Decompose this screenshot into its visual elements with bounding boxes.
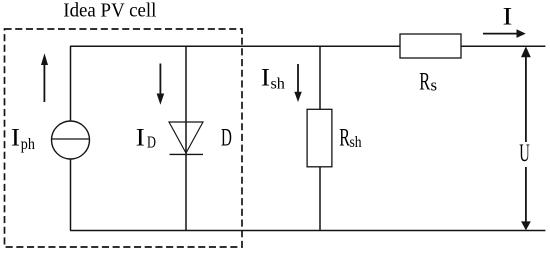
resistor R_s body [400, 34, 461, 58]
arrow: output current I (right) [483, 29, 526, 38]
svg-text:sh: sh [270, 76, 284, 93]
arrow: I_sh direction (down) [294, 64, 302, 102]
wire: current source branch vertical [70, 46, 72, 230]
svg-text:I: I [11, 122, 20, 151]
wire: shunt branch vertical (top) [319, 46, 321, 109]
svg-text:ph: ph [21, 136, 36, 153]
svg-text:sh: sh [349, 134, 362, 151]
svg-text:R: R [419, 67, 430, 96]
current source diameter line [52, 138, 90, 140]
wire: shunt branch vertical (bottom) [319, 167, 321, 231]
diode cathode bar [170, 153, 204, 155]
svg-text:U: U [519, 140, 530, 167]
label R_sh [339, 123, 362, 152]
svg-text:D: D [221, 122, 232, 151]
svg-text:D: D [147, 134, 156, 152]
svg-text:Idea PV cell: Idea PV cell [63, 0, 157, 21]
voltage U measurement line with arrowheads [521, 46, 531, 230]
diode D (triangle) [169, 122, 203, 153]
resistor R_sh body [307, 109, 332, 167]
dashed box (ideal PV cell boundary) [5, 29, 243, 247]
wire: top horizontal bus [70, 45, 545, 47]
label R_s [419, 67, 437, 96]
arrow: I_ph direction (up) [41, 53, 48, 102]
wire: bottom horizontal bus [70, 230, 545, 232]
wire: diode branch vertical [185, 46, 187, 230]
svg-text:I: I [261, 62, 270, 91]
current source Iph (circle) [52, 121, 90, 159]
svg-text:I: I [136, 123, 145, 152]
svg-text:I: I [503, 2, 513, 31]
label I_D [136, 123, 157, 153]
svg-text:s: s [431, 75, 438, 94]
label I_ph [11, 122, 35, 153]
label I_sh [261, 62, 285, 92]
arrow: I_D direction (down) [157, 64, 165, 105]
